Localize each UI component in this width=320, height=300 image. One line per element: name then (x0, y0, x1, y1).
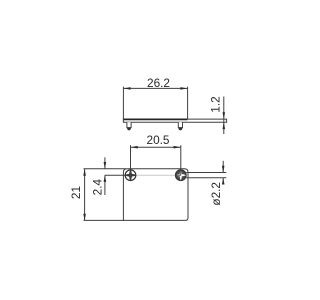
extension line left screw (20.5) (130, 145, 132, 175)
svg-text:26.2: 26.2 (147, 76, 170, 90)
dimension leader 2.4 lower (104, 175, 106, 195)
dimension leader 2.4 upper (104, 157, 106, 168)
arrow bottom of 21 (83, 214, 86, 221)
dimension line 26.2 / body top edge (123, 87, 187, 89)
arrow right of 26.2 (180, 87, 187, 90)
faint centre line between screws (131, 174, 181, 176)
arrow down (dia 2.2) (222, 166, 225, 173)
dimension line 20.5 (131, 146, 181, 148)
bottom plate / lip outline (123, 119, 226, 122)
extension line right screw (20.5) (180, 145, 182, 175)
svg-text:20.5: 20.5 (147, 133, 170, 147)
svg-text:1.2: 1.2 (209, 96, 223, 112)
arrow down to top edge (2.4) (104, 162, 107, 169)
body right side / extension line (187, 87, 189, 120)
dimension leader dia2.2 lower (222, 178, 224, 183)
arrow up (dia 2.2) (222, 178, 225, 185)
face plate outline (123, 169, 188, 221)
screw axis extension line (2.4) (105, 174, 131, 176)
body left side / extension line (122, 87, 124, 123)
left screw head (125, 170, 136, 181)
arrow right of 20.5 (174, 146, 181, 149)
arrow top of 21 (83, 169, 86, 176)
extension line top (21 / 2.4) (84, 168, 127, 170)
arrow below 1.2 (223, 122, 226, 129)
dimension line 21 (84, 169, 86, 220)
arrow left of 20.5 (131, 146, 138, 149)
arrow above 1.2 (223, 112, 226, 119)
arrow up to screw axis (2.4) (104, 175, 107, 182)
thick body bottom edge over plate (124, 118, 188, 120)
extension line lower tangent (dia 2.2) (186, 177, 226, 179)
svg-text:ø2.2: ø2.2 (209, 182, 223, 206)
right screw head (176, 170, 187, 181)
extension line bottom (21) (84, 219, 125, 221)
left snap pin (127, 122, 131, 130)
arrow left of 26.2 (124, 87, 131, 90)
extension line upper tangent (dia 2.2) (186, 172, 226, 174)
right snap pin (178, 122, 182, 130)
svg-text:2.4: 2.4 (91, 179, 105, 196)
svg-text:21: 21 (69, 186, 83, 199)
dimension line 1.2 (plate thickness) (223, 97, 225, 135)
dimension leader dia2.2 upper (222, 161, 224, 173)
